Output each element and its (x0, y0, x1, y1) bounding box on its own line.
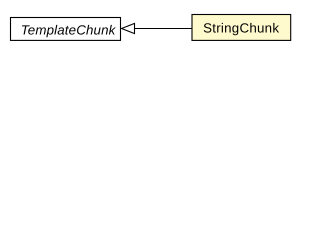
class box TemplateChunk (11, 18, 121, 41)
background (0, 0, 301, 59)
wire: inheritance connector (135, 28, 193, 30)
class box StringChunk (highlighted) (192, 15, 291, 41)
svg-text:StringChunk: StringChunk (203, 21, 279, 36)
svg-text:TemplateChunk: TemplateChunk (21, 22, 117, 37)
generalization arrowhead (hollow triangle) (122, 23, 135, 33)
